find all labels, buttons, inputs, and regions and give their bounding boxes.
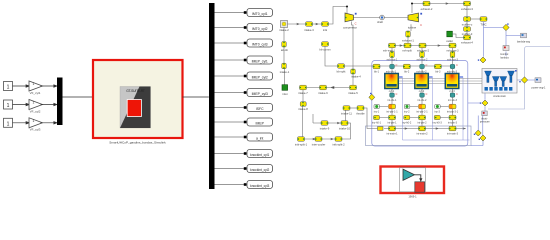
sensor diamond crank lambda: [478, 57, 486, 63]
svg-text:TWC: TWC: [480, 22, 486, 26]
svg-text:bb-3: bb-3: [435, 71, 441, 74]
svg-text:int-vlv-3: int-vlv-3: [448, 99, 457, 102]
svg-text:int-pin-2: int-pin-2: [417, 121, 427, 124]
node intake-9: [320, 121, 330, 131]
svg-text:iny-1: iny-1: [374, 110, 380, 113]
svg-text:C: C: [456, 93, 458, 96]
wire demux to goto IMT0_cyl1: [215, 12, 247, 14]
harness arrow: [415, 175, 421, 179]
node inter-cooler: [312, 137, 326, 147]
goto a_int: [247, 133, 273, 141]
svg-text:intk: intk: [323, 28, 328, 32]
svg-text:IMEP: IMEP: [256, 122, 265, 126]
node int-vlv-3: [448, 93, 458, 102]
node intake-1: [280, 63, 290, 74]
wire intk split row: [305, 138, 336, 140]
svg-text:1: 1: [7, 121, 10, 127]
svg-text:intake-6: intake-6: [318, 91, 328, 95]
node int-pip-2: [416, 104, 428, 113]
node exh-vlv-3: [447, 64, 458, 74]
cylinder 3: [445, 74, 463, 94]
svg-text:int-pin-1: int-pin-1: [387, 121, 397, 124]
svg-text:knockint_cyl1: knockint_cyl1: [250, 153, 269, 157]
svg-text:iny-2: iny-2: [404, 110, 410, 113]
svg-text:int-pip-1-1: int-pip-1-1: [386, 110, 398, 113]
wire demux to goto IMEP: [215, 121, 247, 123]
shaft: [377, 15, 384, 24]
node exh-split: [402, 43, 412, 52]
wire intake-8 down to intk-split-1: [302, 107, 304, 137]
wire gain2 to mux: [41, 103, 58, 105]
svg-text:C: C: [355, 22, 357, 26]
wire intake-7 down to intake-8: [302, 90, 304, 102]
constant block 1: [4, 82, 13, 91]
node intake-4: [351, 69, 362, 79]
svg-text:exhaust-4: exhaust-4: [461, 41, 473, 45]
svg-text:int-pip-3-1: int-pip-3-1: [447, 110, 459, 113]
node int-vlv-1: [388, 93, 398, 102]
gain VF_cyl3: [29, 118, 43, 132]
node int-main-3: [447, 126, 459, 135]
mux: [57, 78, 63, 126]
wire intake-4 to intake-5: [352, 74, 354, 85]
svg-text:intake-3: intake-3: [304, 28, 314, 32]
harness block red (bottom): [381, 167, 445, 194]
node exh-man-2: [417, 43, 430, 52]
sensor diamond int-main-1: [474, 130, 481, 136]
node intk-split-2: [332, 137, 345, 147]
svg-text:turbine: turbine: [408, 26, 417, 30]
node int-pin-1: [387, 115, 397, 124]
node exhaust-2: [421, 1, 433, 11]
svg-text:bb-2: bb-2: [404, 71, 410, 74]
svg-text:lambda-avg: lambda-avg: [517, 41, 531, 44]
svg-text:crank-train: crank-train: [493, 94, 506, 98]
wire const2 to gain2: [13, 103, 30, 105]
svg-text:inter-cooler: inter-cooler: [312, 143, 326, 147]
goto IMEP_cyl3: [247, 89, 273, 97]
svg-text:intake-2: intake-2: [279, 28, 289, 32]
node exh-run-3: [447, 52, 458, 62]
node int-vlv-2: [418, 93, 428, 102]
wire intake-9 to intake-10: [328, 122, 341, 124]
goto IMEP_cyl2: [247, 72, 273, 80]
cylinder 2: [415, 74, 433, 94]
svg-text:IMT0_cyl3: IMT0_cyl3: [252, 43, 268, 47]
wire const3 to gain3: [13, 122, 30, 124]
svg-text:int-pip-2-1: int-pip-2-1: [416, 110, 428, 113]
svg-text:intk-split-2: intk-split-2: [332, 143, 345, 147]
node TWC: [480, 17, 487, 27]
node int-main-2: [416, 126, 428, 135]
crank-train block: [482, 69, 517, 99]
node air-cln: [281, 42, 289, 52]
GT-SUITE block: [93, 60, 183, 138]
svg-text:int-main-2: int-main-2: [416, 132, 428, 135]
node bb-2: [403, 64, 410, 73]
sensor diamond power: [519, 77, 527, 83]
node intake-5: [348, 85, 358, 95]
svg-text:1969-1: 1969-1: [408, 194, 417, 198]
node intk: [322, 22, 329, 32]
node inlet: [282, 85, 288, 96]
compressor: [343, 13, 357, 30]
svg-text:iny-h0-1: iny-h0-1: [372, 121, 382, 124]
wire demux to goto a_int: [215, 136, 247, 138]
node bb-1: [373, 64, 380, 73]
cylinder 1: [385, 74, 403, 94]
svg-text:C: C: [426, 64, 428, 67]
wire int-main line: [384, 128, 466, 130]
blue cylinder sensor lines: [403, 78, 470, 140]
node exhaust-1: [402, 31, 414, 42]
GT-SUITE icon: [120, 87, 151, 129]
node bb-split: [337, 64, 346, 74]
svg-text:1: 1: [7, 103, 10, 109]
node intake-3: [304, 22, 314, 32]
svg-text:intake-4: intake-4: [351, 75, 361, 79]
svg-text:exh-run-1: exh-run-1: [387, 59, 398, 62]
goto ISFC: [247, 104, 273, 112]
constant block 3: [4, 118, 13, 127]
svg-text:1: 1: [33, 101, 35, 105]
svg-text:SmartUHCoP_gasdins_bondas_Simu: SmartUHCoP_gasdins_bondas_Simulink: [109, 141, 166, 145]
svg-text:cyl-3: cyl-3: [449, 89, 455, 93]
turbine: [408, 13, 422, 30]
sensor diamond lambda: [503, 23, 509, 30]
wire gain3 to mux: [41, 122, 58, 124]
blue line big box top edge: [525, 47, 550, 50]
goto IMT0_cyl3: [247, 39, 273, 47]
node muffler-d: [462, 27, 473, 36]
goto knockint_cyl3: [247, 181, 273, 189]
svg-text:VF_cyl2: VF_cyl2: [30, 109, 41, 113]
block lambda-avg: [517, 33, 531, 43]
node intake-6: [318, 85, 328, 95]
wire const1 to gain1: [13, 85, 30, 87]
svg-text:C: C: [396, 93, 398, 96]
blue line thrott-pressure to diamonds: [471, 116, 483, 146]
svg-text:IMT0_cyl1: IMT0_cyl1: [252, 12, 268, 16]
svg-text:intake-7: intake-7: [298, 91, 308, 95]
wire exh runners down to valves: [392, 48, 453, 64]
node exhaust-4: [461, 35, 473, 44]
node exh-vlv-2: [416, 64, 427, 74]
sensor diamond crank corner: [480, 100, 488, 106]
svg-text:int-vlv-1: int-vlv-1: [388, 99, 397, 102]
wire compressor down to intake-4: [352, 22, 354, 70]
node int-pip-3: [447, 104, 459, 113]
goto IMT0_cyl1: [247, 9, 273, 17]
wire demux to goto knockint_cyl1: [215, 153, 247, 155]
harness red square: [415, 182, 425, 192]
svg-text:1: 1: [33, 82, 35, 86]
wire muffler-u to TWC: [471, 18, 481, 20]
wire demux to goto IMEP_cyl1: [215, 59, 247, 61]
wire turbine down to exhaust-1: [408, 24, 411, 43]
svg-text:intake-8: intake-8: [298, 107, 308, 111]
node iny-3: [434, 104, 440, 113]
svg-text:VF_cyl3: VF_cyl3: [30, 128, 41, 132]
svg-text:VF_cyl1: VF_cyl1: [30, 91, 41, 95]
node muffler-u: [462, 17, 473, 27]
wire demux to goto IMEP_cyl2: [215, 75, 247, 77]
node bb-comm: [319, 42, 331, 52]
wire demux to goto IMT0_cyl2: [215, 27, 247, 29]
goto knockint_cyl1: [247, 150, 273, 158]
svg-text:iny-h0-2: iny-h0-2: [402, 121, 412, 124]
svg-text:exh-split: exh-split: [402, 50, 412, 53]
wire demux to goto knockint_cyl3: [215, 184, 247, 186]
svg-text:1: 1: [33, 119, 35, 123]
node exh-run-1: [387, 52, 398, 62]
node exh-run-2: [417, 52, 428, 62]
node outlet: [446, 31, 453, 43]
gain VF_cyl2: [29, 100, 43, 114]
wire intake-2 to intake-3 to intk: [287, 23, 322, 25]
svg-text:cyl-2: cyl-2: [419, 89, 425, 93]
node iny-2: [404, 104, 410, 113]
svg-text:IMEP_cyl1: IMEP_cyl1: [252, 60, 268, 64]
svg-text:GT-SUITE-RT: GT-SUITE-RT: [126, 89, 145, 93]
svg-text:compressor: compressor: [343, 26, 357, 30]
node iny-1: [374, 104, 380, 113]
svg-text:intake-1: intake-1: [280, 70, 290, 74]
wire gain1 to mux: [41, 85, 58, 87]
wire shaft line compressor to turbine: [354, 17, 408, 19]
node exh-vlv-1: [386, 64, 398, 74]
node intake-10: [339, 121, 351, 131]
svg-text:lambda: lambda: [500, 57, 509, 60]
node int-pin-3: [448, 115, 458, 124]
node intake-2: [279, 21, 289, 33]
wire mux to GT block: [63, 96, 93, 98]
wire exhaust-3 down muffler chain: [466, 6, 468, 35]
wire intake-10 up to intake-11: [345, 111, 347, 121]
svg-text:intake-11: intake-11: [341, 112, 352, 116]
wire env chain intake-2 down to inlet: [283, 28, 286, 85]
wire demux to goto IMEP_cyl3: [215, 92, 247, 94]
svg-text:exhaust-2: exhaust-2: [421, 7, 433, 11]
svg-text:air-cln: air-cln: [281, 48, 289, 52]
svg-text:exh-run-2: exh-run-2: [417, 59, 428, 62]
goto IMEP_cyl1: [247, 56, 273, 64]
wire demux to goto IMT0_cyl3: [215, 42, 247, 44]
svg-text:C: C: [426, 93, 428, 96]
node exh-man-3: [447, 43, 460, 52]
sensor diamond int-main-2: [479, 135, 486, 141]
node intk-split-1: [295, 137, 308, 147]
wire intk-split-2 to intake-10: [342, 123, 351, 139]
svg-text:C: C: [420, 23, 422, 27]
goto knockint_cyl2: [247, 165, 273, 173]
svg-text:knockint_cyl3: knockint_cyl3: [250, 184, 269, 188]
svg-text:intake-5: intake-5: [348, 91, 358, 95]
blue sensor line lambda diamond to avg and monitor: [506, 31, 521, 56]
node thrott-pressure: [480, 111, 490, 124]
node intake-11: [341, 106, 352, 116]
wire crank lines: [398, 79, 483, 84]
svg-text:inlet: inlet: [283, 92, 288, 96]
wire exhaust-2 to exhaust-3: [430, 3, 464, 5]
svg-text:int-vlv-2: int-vlv-2: [418, 99, 427, 102]
wire throttle to plenum entry: [364, 108, 377, 129]
wire intake-11 to throttle: [350, 107, 357, 109]
gain VF_cyl1: [29, 81, 43, 95]
svg-text:pressure: pressure: [480, 121, 490, 124]
svg-text:bb-split: bb-split: [337, 70, 346, 74]
svg-text:knockint_cyl2: knockint_cyl2: [250, 168, 269, 172]
node throttle: [356, 106, 365, 116]
wire intake-5 to intake-6 to intake-7: [307, 86, 349, 88]
svg-text:bb-1: bb-1: [374, 71, 380, 74]
svg-text:throttle: throttle: [356, 112, 365, 116]
svg-text:C: C: [396, 64, 398, 67]
node int-pip-1: [386, 104, 398, 113]
svg-text:intk-split-1: intk-split-1: [295, 143, 308, 147]
svg-text:IMT0_cyl2: IMT0_cyl2: [252, 27, 268, 31]
goto IMT0_cyl2: [247, 24, 273, 32]
node plenum entry: [378, 127, 384, 131]
demux: [209, 3, 215, 189]
node int-main-1: [386, 126, 398, 135]
svg-text:IMEP_cyl2: IMEP_cyl2: [252, 76, 268, 80]
svg-text:exhaust-1: exhaust-1: [402, 38, 414, 42]
node int-pin-2: [417, 115, 427, 124]
blue line power column: [488, 49, 525, 109]
node bb-3: [434, 64, 441, 73]
node exhaust-3: [461, 1, 473, 11]
svg-text:intake-9: intake-9: [320, 127, 330, 131]
wire demux to goto ISFC: [215, 107, 247, 109]
node intake-7: [298, 85, 308, 95]
wire GT block to demux: [183, 96, 209, 98]
svg-text:int-pin-3: int-pin-3: [448, 121, 458, 124]
block monitor-lambda: [500, 46, 509, 60]
junction dot compressor inlet: [346, 6, 348, 8]
wire demux to goto knockint_cyl2: [215, 168, 247, 170]
wire injector links: [380, 107, 449, 118]
wire exhaust-4 to outlet: [453, 34, 464, 38]
block power-avg-1: [532, 78, 547, 90]
node intake-8: [298, 102, 308, 112]
goto IMEP: [247, 118, 273, 126]
node iny-h0-2: [402, 115, 412, 124]
svg-text:iny-3: iny-3: [434, 110, 440, 113]
constant block 2: [4, 100, 13, 109]
group box blue (intake runner region): [372, 61, 468, 147]
svg-text:IMEP_cyl3: IMEP_cyl3: [252, 92, 268, 96]
svg-text:ISFC: ISFC: [256, 107, 264, 111]
svg-text:shaft: shaft: [377, 20, 383, 24]
wire exh valves to cylinders: [392, 69, 453, 73]
svg-text:exhaust-3: exhaust-3: [461, 7, 473, 11]
group box intake manifold: [366, 126, 472, 146]
blue line crank corner sensor: [468, 93, 485, 111]
svg-text:cyl-1: cyl-1: [389, 89, 395, 93]
svg-text:a_int: a_int: [256, 137, 263, 141]
sensor diamond blue-box-left: [369, 93, 375, 101]
node exh-man-1: [383, 43, 396, 52]
wire exhaust manifold row: [389, 45, 457, 47]
wire intk up to compressor inlet: [329, 7, 348, 25]
wire stub left of intake-9: [313, 114, 321, 123]
wire cylinder columns down to int-main: [392, 89, 453, 127]
svg-text:int-main-3: int-main-3: [447, 132, 459, 135]
harness buffer triangle: [403, 169, 415, 180]
svg-text:int-main-1: int-main-1: [386, 132, 398, 135]
svg-text:exh-run-3: exh-run-3: [447, 59, 458, 62]
wire bb line: [325, 47, 454, 67]
svg-text:muffler-u: muffler-u: [462, 22, 473, 26]
blue line crank to power diamond: [517, 79, 535, 81]
svg-text:iny-h0-3: iny-h0-3: [433, 121, 443, 124]
blue sensor line TWC down: [484, 22, 503, 57]
svg-text:monitor.: monitor.: [500, 53, 509, 56]
svg-text:1: 1: [7, 85, 10, 91]
svg-text:bb-comm: bb-comm: [319, 48, 331, 52]
node iny-h0-1: [372, 115, 382, 124]
svg-text:power-avg-1: power-avg-1: [532, 86, 547, 89]
svg-text:C: C: [456, 64, 458, 67]
node iny-h0-3: [433, 115, 443, 124]
junction dot turbine top: [411, 3, 413, 5]
svg-text:intake-10: intake-10: [339, 127, 351, 131]
wire turbine up to exhaust-2: [412, 4, 423, 14]
svg-text:outlet: outlet: [446, 39, 453, 43]
